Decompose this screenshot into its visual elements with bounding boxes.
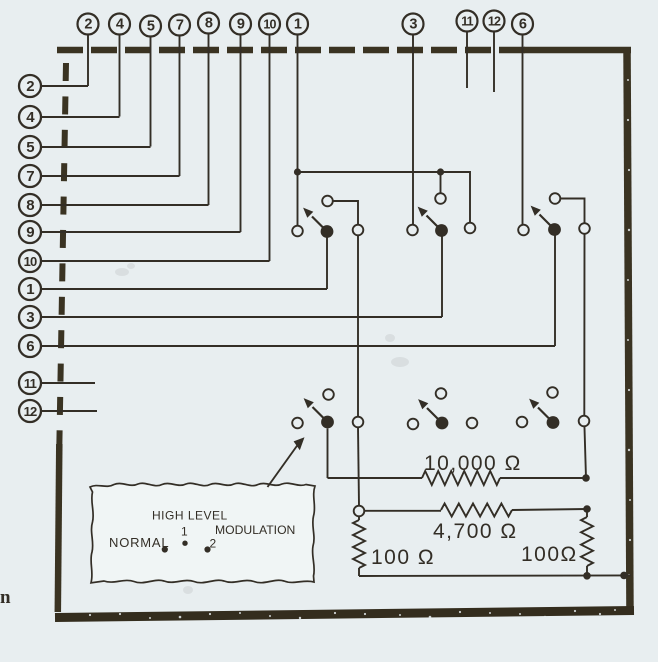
switch S3 left contact	[518, 225, 529, 236]
terminal 10 (top)	[259, 14, 280, 35]
position dot: 2	[204, 546, 210, 552]
switch S1 top contact	[322, 196, 333, 207]
svg-text:1: 1	[294, 17, 302, 33]
terminal 4 (left)	[19, 106, 41, 128]
wire: bottom bus to enclosure border	[359, 574, 631, 577]
switch S4 wiper arrow	[304, 398, 328, 422]
switch S4 top contact	[323, 389, 334, 400]
resistor R2 4,700 ohm	[364, 504, 587, 517]
annotation box (torn-paper label)	[90, 483, 315, 583]
svg-text:NORMAL: NORMAL	[109, 535, 169, 550]
terminal 3 (top)	[403, 14, 424, 35]
svg-text:1: 1	[181, 525, 188, 539]
wire from top terminal 5	[150, 37, 152, 147]
wire from top terminal 2	[87, 35, 89, 86]
wire riser: terminal 6 wire up to switch S3 wiper	[554, 235, 556, 346]
wire from top terminal 11	[466, 32, 468, 88]
terminal 7 (left)	[19, 165, 41, 187]
wire from left terminal 8	[41, 204, 208, 206]
switch S5 wiper	[436, 417, 449, 430]
switch S5 top contact	[436, 388, 447, 399]
switch S2 top contact	[435, 193, 446, 204]
svg-text:5: 5	[26, 139, 34, 156]
wire from top terminal 4	[119, 35, 121, 117]
position dot: NORMAL	[162, 546, 168, 552]
svg-text:4,700 Ω: 4,700 Ω	[433, 520, 518, 543]
terminal 8 (top)	[198, 13, 219, 34]
terminal 3 (left)	[19, 306, 41, 328]
wire: S3 top contact to right contact	[560, 199, 584, 224]
wire from top terminal 7	[179, 36, 181, 176]
svg-text:3: 3	[409, 17, 417, 33]
enclosure border: right	[627, 48, 630, 614]
terminal 6 (top)	[512, 14, 533, 35]
resistor R1 10,000 ohm	[328, 471, 587, 485]
terminal 4 (top)	[109, 14, 130, 35]
wire from left terminal 10	[41, 260, 269, 262]
svg-text:1: 1	[26, 281, 34, 298]
wire: S4 wiper down to resistor R1	[327, 429, 329, 479]
svg-text:9: 9	[26, 224, 34, 241]
svg-text:3: 3	[26, 309, 34, 326]
enclosure border: top (dashed chassis line)	[57, 47, 631, 54]
position dot: 1	[182, 541, 187, 546]
enclosure border: left (dashed chassis line, solid lower part)	[58, 63, 66, 612]
wire from top terminal 10	[269, 35, 271, 261]
junction: rail at S2 top-contact drop	[437, 168, 444, 175]
svg-text:6: 6	[519, 17, 527, 33]
wire from top terminal 8	[208, 34, 210, 205]
svg-text:10: 10	[263, 18, 276, 32]
enclosure border: bottom	[55, 611, 634, 618]
switch S6 top contact	[547, 387, 558, 398]
wire: S4 right contact down to node terminal of R2	[358, 427, 359, 505]
switch S1 left contact	[292, 226, 303, 237]
terminal 7 (top)	[169, 15, 190, 36]
wire from top terminal 12	[493, 32, 495, 92]
wire from left terminal 6	[41, 345, 555, 347]
switch S2 wiper	[435, 224, 448, 237]
switch S5 right contact	[467, 418, 478, 429]
terminal 5 (top)	[140, 16, 161, 37]
svg-text:2: 2	[26, 78, 34, 95]
terminal 11 (left)	[19, 372, 41, 394]
switch S5 wiper arrow	[418, 399, 442, 423]
resistor R4 100 ohm (right)	[581, 509, 593, 576]
terminal 2 (left)	[19, 75, 41, 97]
terminal 8 (left)	[19, 194, 41, 216]
switch S6 right contact	[579, 416, 590, 427]
node terminal (open circle) at R2 left end	[354, 506, 365, 517]
switch S2 right contact	[465, 223, 476, 234]
wire riser: terminal 3 wire up to switch S2 wiper	[441, 236, 443, 317]
wire: S3 right contact down through S6 right contact to resistor network	[584, 234, 586, 478]
wire: S1 right contact down to S4 right contact	[357, 235, 359, 416]
svg-text:12: 12	[24, 404, 37, 419]
wire from left terminal 9	[41, 231, 240, 233]
switch S2 wiper arrow	[418, 207, 442, 231]
terminal 10 (left)	[19, 250, 41, 272]
switch S1 right contact	[353, 225, 364, 236]
junction: bottom bus at R4	[583, 572, 591, 580]
switch S4 left contact	[292, 418, 303, 429]
svg-text:2: 2	[84, 17, 92, 33]
svg-text:11: 11	[461, 15, 473, 29]
svg-text:4: 4	[116, 17, 124, 33]
switch S6 wiper	[547, 416, 560, 429]
terminal 1 (left)	[19, 278, 41, 300]
terminal 5 (left)	[19, 136, 41, 158]
terminal 12 (top)	[484, 11, 505, 32]
svg-text:12: 12	[488, 15, 501, 29]
terminal 12 (left)	[19, 400, 41, 422]
wire from top terminal 1	[297, 35, 299, 226]
svg-text:MODULATION: MODULATION	[215, 523, 295, 537]
terminal 11 (top)	[457, 11, 478, 32]
svg-text:6: 6	[26, 338, 34, 355]
wire from left terminal 3	[41, 316, 442, 318]
switch S2 left contact	[407, 225, 418, 236]
switch S3 wiper arrow	[531, 206, 555, 230]
terminal 1 (top)	[287, 14, 308, 35]
svg-text:11: 11	[24, 376, 37, 391]
junction: bottom bus at enclosure border	[620, 572, 628, 580]
callout arrow from annotation box to switch S4	[268, 437, 305, 487]
junction: R1 right end on right bus	[582, 474, 590, 482]
switch S3 right contact	[579, 223, 590, 234]
svg-text:n: n	[0, 587, 11, 608]
svg-text:100Ω: 100Ω	[521, 543, 578, 566]
wire from left terminal 7	[41, 175, 179, 177]
wire from left terminal 1	[41, 288, 327, 290]
switch S3 wiper	[548, 223, 561, 236]
wire from left terminal 5	[41, 146, 150, 148]
svg-text:8: 8	[205, 16, 213, 32]
svg-text:7: 7	[26, 168, 34, 185]
wire: S1 top contact to right contact	[333, 201, 358, 225]
junction: rail at terminal-1 drop	[294, 168, 301, 175]
svg-text:10,000 Ω: 10,000 Ω	[424, 452, 522, 475]
svg-text:5: 5	[147, 19, 155, 35]
svg-text:100 Ω: 100 Ω	[371, 546, 435, 569]
terminal 2 (top)	[78, 14, 99, 35]
svg-text:2: 2	[210, 537, 217, 551]
switch S6 wiper arrow	[529, 399, 553, 423]
terminal 9 (left)	[19, 221, 41, 243]
wire from left terminal 12	[41, 410, 97, 412]
switch S1 wiper arrow	[303, 208, 327, 232]
terminal 6 (left)	[19, 335, 41, 357]
terminal 9 (top)	[230, 14, 251, 35]
wire from left terminal 4	[41, 116, 119, 118]
wire rail: node joining terminal 1, S2 top contact and S2 right contact	[298, 172, 471, 223]
switch S4 wiper	[321, 416, 334, 429]
svg-text:7: 7	[176, 18, 184, 34]
wire riser: terminal 1 wire up to switch S1 wiper	[326, 237, 328, 289]
switch S1 wiper	[321, 225, 334, 238]
wire from top terminal 9	[240, 35, 242, 232]
svg-text:10: 10	[24, 254, 37, 269]
switch S5 left contact	[408, 419, 419, 430]
wire: rail drop to S2 top contact	[440, 172, 442, 193]
wire from left terminal 11	[41, 382, 95, 384]
wire from left terminal 2	[41, 85, 88, 87]
svg-text:9: 9	[237, 17, 245, 33]
wire from top terminal 3	[412, 35, 414, 225]
junction: R2 right end on right bus	[583, 505, 591, 513]
svg-text:HIGH LEVEL: HIGH LEVEL	[152, 509, 228, 523]
switch S3 top contact	[550, 193, 561, 204]
resistor R3 100 ohm (left)	[353, 516, 365, 576]
wire from top terminal 6	[522, 35, 524, 225]
switch S4 right contact	[353, 417, 364, 428]
svg-text:8: 8	[26, 197, 34, 214]
switch S6 left contact	[517, 417, 528, 428]
